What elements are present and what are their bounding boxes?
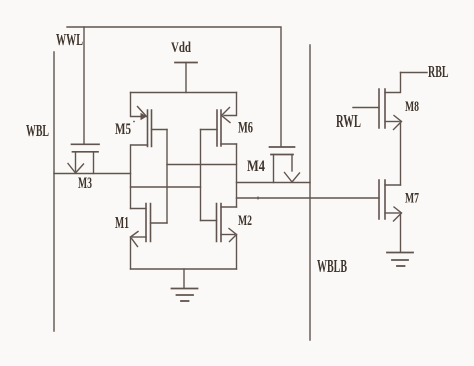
svg-text:WWL: WWL <box>56 30 83 49</box>
ground center <box>172 269 198 301</box>
svg-text:M2: M2 <box>238 213 252 229</box>
svg-text:M6: M6 <box>238 120 253 137</box>
transistor M1 <box>131 204 168 270</box>
wire inverter top rail <box>131 92 237 94</box>
wire QB to WBLB through M4 <box>237 182 311 184</box>
svg-text:M1: M1 <box>115 213 129 232</box>
ground right <box>387 253 413 267</box>
wire WBL line <box>53 52 55 331</box>
transistor M2 <box>201 204 237 270</box>
wire right inverter input <box>200 130 202 221</box>
wire RBL <box>401 72 428 74</box>
wire WWL drop to M3 gate <box>83 27 85 144</box>
power Vdd symbol <box>175 62 197 64</box>
transistor M6 <box>201 93 237 147</box>
transistor M4 <box>270 147 300 183</box>
transistor M7 <box>379 180 402 252</box>
svg-text:Vdd: Vdd <box>171 40 191 56</box>
wire WWL rail <box>67 27 281 146</box>
svg-text:WBLB: WBLB <box>317 256 347 276</box>
junction tick on QB-M7 wire <box>257 197 259 200</box>
transistor M8 <box>353 73 402 186</box>
node Q vertical <box>130 145 132 209</box>
svg-text:WBL: WBL <box>26 121 49 140</box>
wire cross-couple Q to right input <box>131 186 201 188</box>
svg-text:M7: M7 <box>405 191 419 207</box>
wire QB to M7 gate <box>237 197 380 199</box>
svg-text:RBL: RBL <box>428 62 449 81</box>
wire left inverter input <box>166 130 168 224</box>
wire WBL to node Q <box>54 173 131 175</box>
svg-text:M3: M3 <box>78 175 92 192</box>
transistor M3 <box>68 144 99 173</box>
transistor M5 <box>131 93 168 147</box>
svg-text:M5: M5 <box>115 121 131 138</box>
label M5 apostrophe mark <box>133 121 135 123</box>
wire WBLB line <box>309 45 311 340</box>
wire bottom rail <box>131 268 237 270</box>
svg-text:RWL: RWL <box>336 111 361 131</box>
node QB vertical <box>236 144 238 207</box>
wire cross-couple QB to left input <box>167 164 237 166</box>
svg-text:M8: M8 <box>405 99 419 115</box>
svg-text:M4: M4 <box>247 158 265 175</box>
